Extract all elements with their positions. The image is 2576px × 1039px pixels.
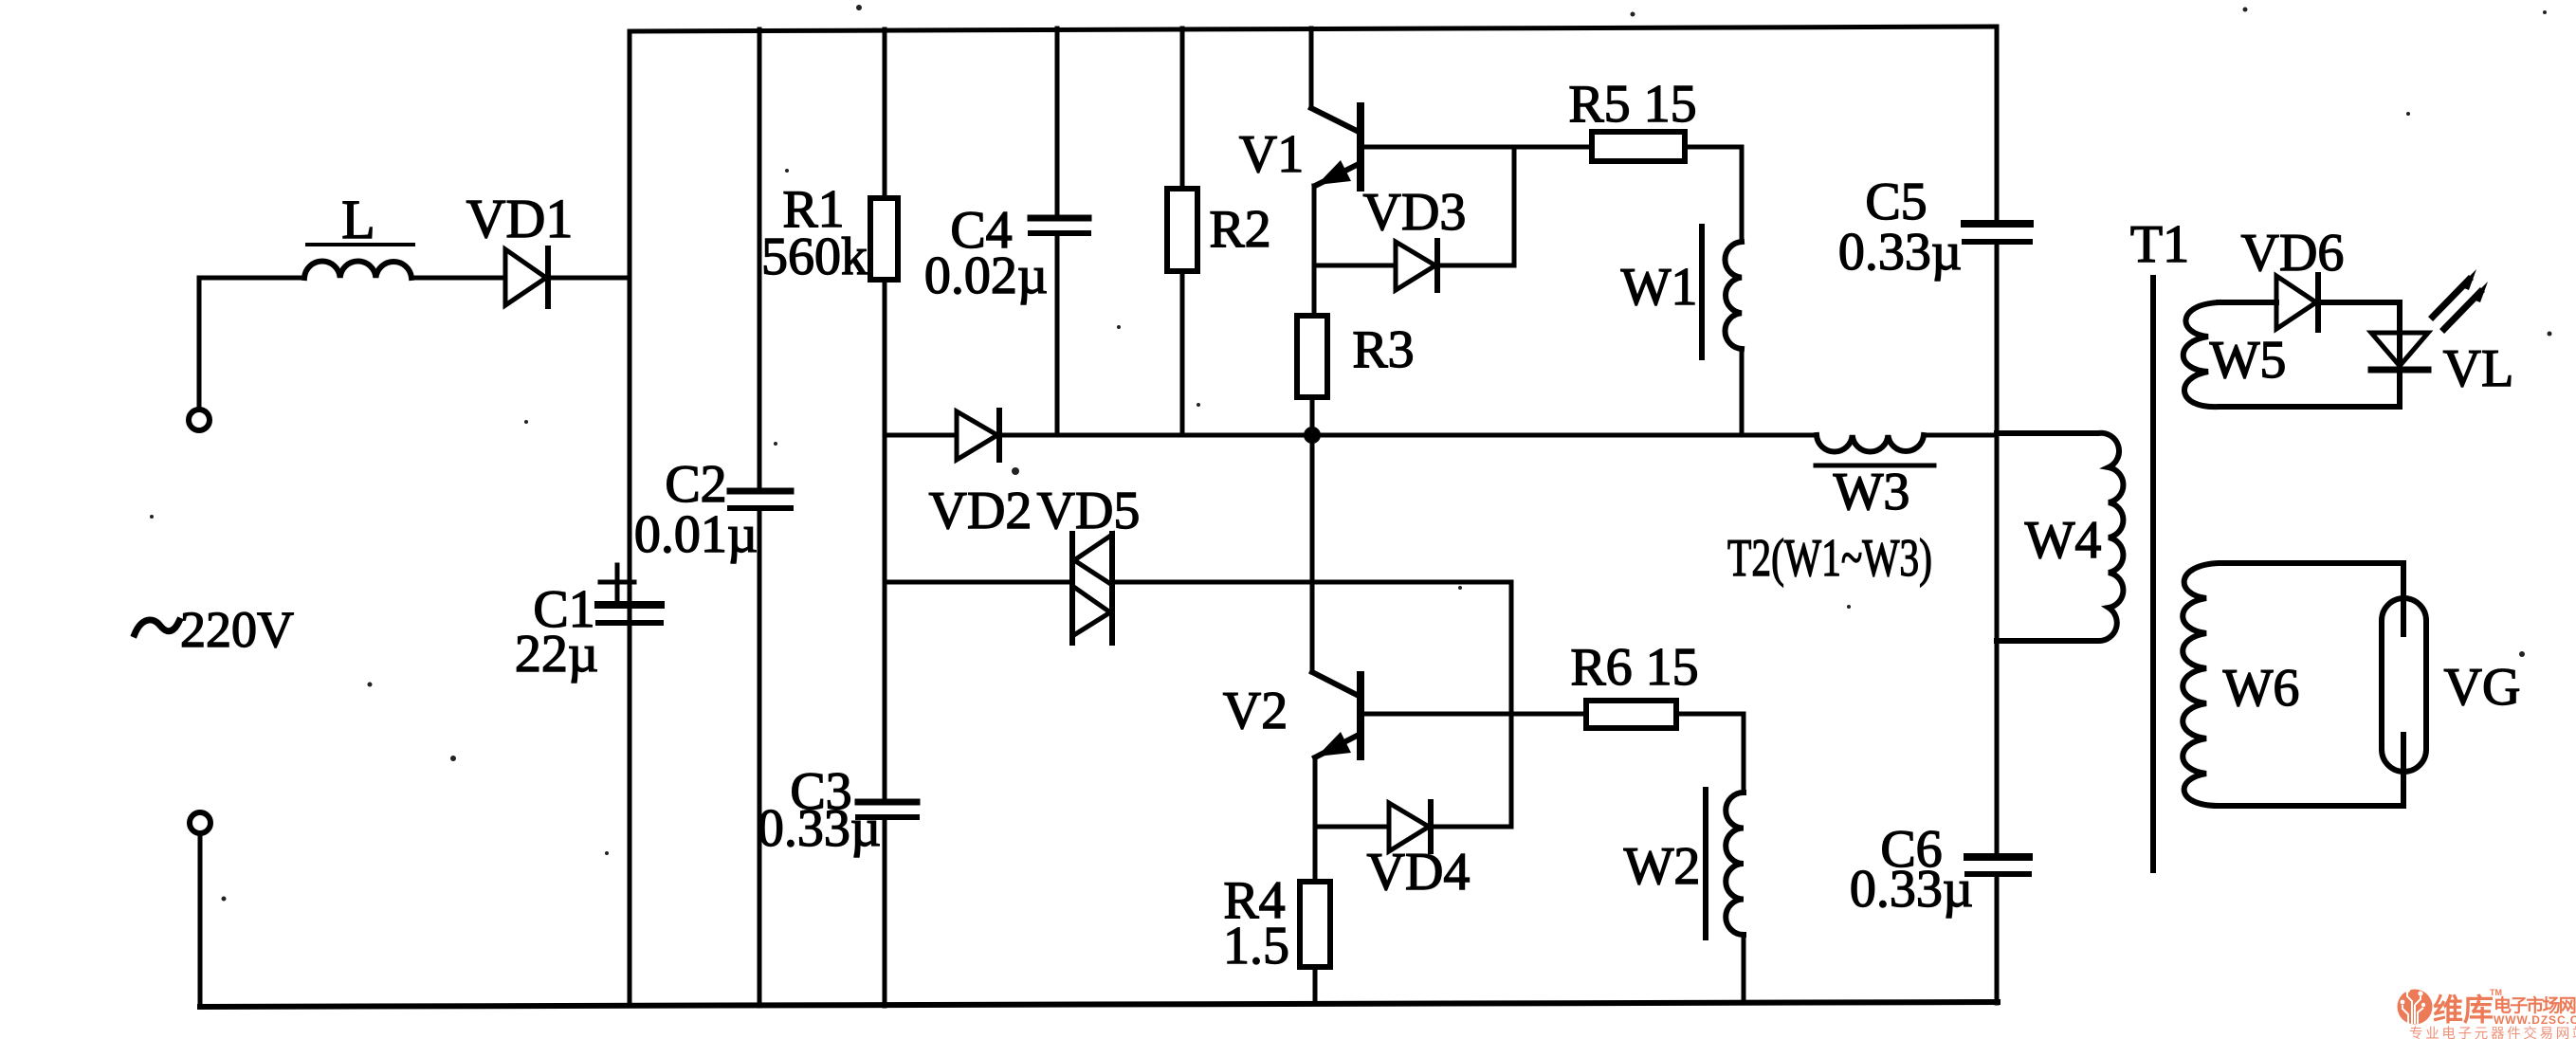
svg-text:1.5: 1.5: [1223, 917, 1289, 975]
winding W6 loop: [2183, 563, 2403, 806]
svg-text:VD4: VD4: [1367, 843, 1471, 902]
wire V1 base to R5 corner: [1362, 147, 1514, 265]
diode VD4: [1389, 802, 1431, 851]
diode VD6: [2276, 275, 2318, 330]
wire top rail: [630, 27, 1996, 31]
wire V1 emitter down: [1312, 186, 1317, 316]
resistor R6: [1586, 701, 1676, 728]
wire R3 to mid node: [1310, 397, 1315, 435]
svg-text:V2: V2: [1223, 682, 1288, 740]
winding W3: [1816, 435, 1934, 465]
diode VD2: [957, 410, 999, 460]
svg-text:W1: W1: [1621, 258, 1698, 317]
svg-text:0.33µ: 0.33µ: [758, 799, 881, 858]
transformer core T1: [2150, 278, 2156, 870]
resistor R1: [870, 198, 898, 280]
transistor V2: [1312, 435, 1361, 757]
wire R5 to W1: [1685, 147, 1742, 242]
svg-text:V1: V1: [1239, 125, 1304, 184]
wire VD3 to corner: [1437, 264, 1514, 268]
svg-text:WWW.DZSC.COM: WWW.DZSC.COM: [2494, 1013, 2576, 1027]
svg-text:VD1: VD1: [466, 188, 574, 249]
svg-text:0.33µ: 0.33µ: [1850, 860, 1973, 919]
transistor V1: [1311, 28, 1361, 188]
svg-text:专业电子元器件交易网站: 专业电子元器件交易网站: [2409, 1025, 2576, 1039]
svg-text:R5 15: R5 15: [1568, 75, 1696, 134]
wire VD1 to left edge: [548, 276, 630, 281]
winding W2: [1706, 790, 1744, 938]
svg-text:VL: VL: [2443, 339, 2514, 398]
wire left edge of bridge box: [628, 31, 632, 1006]
wire W2 to bottom rail: [1742, 935, 1746, 1003]
node upper input terminal: [189, 410, 210, 430]
svg-text:VD2: VD2: [929, 482, 1032, 540]
lamp VG: [2382, 598, 2426, 772]
svg-text:W3: W3: [1834, 463, 1910, 521]
wire R2 branch: [1180, 28, 1185, 435]
resistor R3: [1297, 316, 1327, 397]
LED VL: [2371, 269, 2488, 370]
watermark logo 维库: [2398, 987, 2576, 1039]
wire W6 to VG electrodes: [2401, 563, 2406, 806]
svg-text:W2: W2: [1624, 837, 1701, 896]
svg-text:VD3: VD3: [1363, 183, 1467, 242]
svg-text:R6 15: R6 15: [1570, 638, 1698, 697]
winding W5 loop: [2183, 302, 2400, 407]
svg-text:W6: W6: [2223, 659, 2300, 718]
wire L to VD1: [411, 276, 505, 281]
wire bottom rail: [200, 1002, 1998, 1007]
wire base to R5: [1514, 145, 1592, 150]
svg-text:W5: W5: [2210, 331, 2287, 390]
wire C5 C6 branch: [1995, 27, 2000, 1003]
svg-text:T1: T1: [2130, 215, 2189, 274]
wire VD3 left: [1314, 264, 1396, 268]
svg-text:VG: VG: [2444, 658, 2521, 717]
wire emitter to R4: [1313, 827, 1318, 882]
diac VD5: [1072, 534, 1112, 643]
wire W1 to mid line: [1740, 349, 1745, 435]
wire C2 branch: [758, 29, 762, 1006]
wire diac feed: [885, 580, 1072, 585]
resistor R5: [1592, 132, 1685, 161]
wire lower input down to bottom rail: [198, 833, 203, 1007]
winding W4: [1997, 433, 2123, 641]
svg-text:L: L: [341, 189, 375, 250]
svg-text:0.02µ: 0.02µ: [924, 246, 1048, 305]
svg-text:220V: 220V: [180, 601, 294, 658]
wire upper input to L: [199, 278, 304, 410]
svg-text:R3: R3: [1352, 320, 1414, 379]
resistor R4: [1300, 882, 1330, 967]
diode VD3: [1396, 241, 1437, 290]
capacitor C4: [1031, 218, 1088, 233]
inductor L: [304, 245, 413, 278]
capacitor C3: [858, 802, 917, 817]
winding W1: [1702, 227, 1742, 357]
capacitor C1: [598, 565, 661, 623]
svg-text:22µ: 22µ: [515, 625, 598, 684]
wire diac to V2 base corner: [1112, 582, 1511, 827]
wire R1 C3 branch: [883, 29, 887, 1006]
label ~220V: [135, 620, 179, 634]
svg-text:VD6: VD6: [2241, 224, 2345, 283]
wire R4 to bottom rail: [1313, 967, 1318, 1004]
junction dot mid node: [1304, 427, 1321, 444]
svg-text:VD5: VD5: [1037, 482, 1141, 540]
svg-text:0.01µ: 0.01µ: [634, 505, 758, 564]
svg-text:维库: 维库: [2433, 993, 2494, 1027]
wire V2 emitter down: [1313, 757, 1318, 827]
capacitor C2: [730, 491, 791, 508]
svg-text:0.33µ: 0.33µ: [1838, 223, 1962, 282]
svg-text:W4: W4: [2025, 511, 2102, 570]
wire V2 base to R6: [1362, 712, 1586, 717]
svg-text:560k: 560k: [761, 228, 868, 286]
svg-text:R2: R2: [1209, 200, 1270, 259]
wire R6 to W2: [1676, 714, 1744, 793]
resistor R2: [1167, 189, 1197, 271]
capacitor C6: [1967, 857, 2029, 874]
wire C4 branch: [1055, 28, 1060, 435]
diode VD1: [505, 248, 548, 306]
capacitor C5: [1964, 224, 2030, 242]
wire VD4 left: [1315, 825, 1389, 829]
wire mid node line: [885, 433, 1997, 438]
svg-text:T2(W1~W3): T2(W1~W3): [1727, 529, 1932, 588]
node lower input terminal: [190, 812, 210, 833]
wire VD4 to corner: [1431, 825, 1511, 829]
